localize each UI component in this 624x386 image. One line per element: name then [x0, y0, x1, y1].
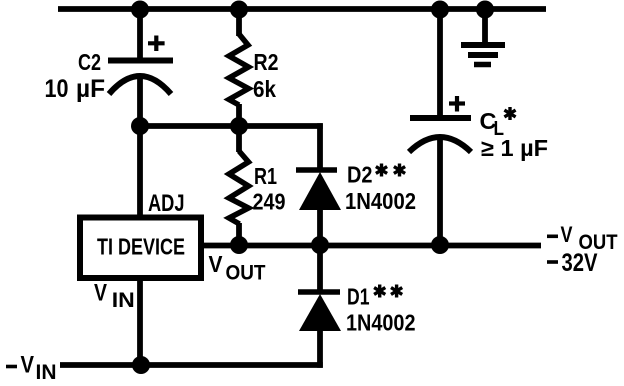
- wire ADJ node horizontal: [137, 123, 323, 129]
- label -VOUT -32V output: [547, 222, 618, 277]
- svg-text:V: V: [21, 352, 35, 379]
- wire D2 bottom lead: [317, 208, 323, 245]
- diode D2: [296, 170, 341, 210]
- svg-text:R1: R1: [254, 163, 277, 189]
- svg-text:R2: R2: [254, 49, 279, 75]
- diode D1: [298, 292, 341, 331]
- svg-text:10: 10: [45, 75, 69, 103]
- resistor R2: [229, 34, 249, 105]
- wire R2 bottom lead: [236, 104, 242, 126]
- svg-text:IN: IN: [36, 361, 57, 384]
- label VIN pin: [94, 280, 135, 313]
- wire CL top lead: [437, 9, 443, 116]
- wire ADJ pin: [137, 126, 143, 215]
- label -VIN input: [6, 352, 57, 385]
- node bottom rail / VIN junction: [132, 356, 150, 374]
- wire ground lead: [482, 9, 488, 45]
- wire R1 bottom lead: [236, 223, 242, 245]
- capacitor CL: [409, 96, 471, 152]
- svg-text:1N4002: 1N4002: [345, 188, 416, 214]
- node VOUT / D2 junction: [311, 236, 329, 254]
- svg-text:D2: D2: [347, 162, 373, 188]
- wire VIN pin: [137, 279, 143, 365]
- svg-text:µF: µF: [76, 75, 105, 103]
- op-amp box TI DEVICE: [80, 218, 201, 279]
- wire R1 top lead: [236, 126, 242, 152]
- svg-text:1N4002: 1N4002: [346, 310, 416, 336]
- ground: [461, 45, 505, 65]
- wire C2 bottom lead: [137, 77, 143, 126]
- wire D2 top lead: [317, 123, 323, 170]
- label CL*: [480, 107, 516, 140]
- svg-text:TI DEVICE: TI DEVICE: [97, 234, 185, 260]
- node top rail / C2 junction: [131, 1, 149, 19]
- resistor R1: [229, 151, 249, 224]
- node VOUT / R1 junction: [230, 236, 248, 254]
- node ADJ / R2 junction: [230, 117, 248, 135]
- wire top rail: [58, 6, 546, 12]
- label D2**: [347, 162, 405, 188]
- svg-text:6k: 6k: [253, 76, 276, 102]
- svg-text:D1: D1: [347, 284, 370, 310]
- wire R2 top lead: [236, 9, 242, 36]
- node top rail / R2 junction: [230, 1, 248, 19]
- node ADJ / C2 junction: [131, 117, 149, 135]
- svg-text:OUT: OUT: [226, 262, 266, 285]
- label VOUT pin: [209, 251, 266, 285]
- wire D1 top lead: [317, 245, 323, 290]
- svg-text:V: V: [209, 251, 224, 277]
- node VOUT / CL junction: [431, 236, 449, 254]
- node top rail / ground junction: [476, 1, 494, 19]
- node top rail / CL junction: [431, 1, 449, 19]
- svg-text:C2: C2: [78, 49, 101, 75]
- svg-text:≥ 1 µF: ≥ 1 µF: [481, 135, 548, 161]
- label D1**: [347, 284, 402, 310]
- svg-text:V: V: [561, 222, 573, 247]
- wire bottom rail: [60, 362, 323, 368]
- svg-text:32V: 32V: [562, 249, 598, 277]
- svg-text:V: V: [94, 280, 107, 307]
- wire CL bottom lead: [437, 139, 443, 245]
- svg-text:249: 249: [253, 189, 286, 215]
- svg-text:IN: IN: [112, 289, 135, 312]
- svg-text:ADJ: ADJ: [148, 190, 185, 217]
- wire C2 top lead: [137, 9, 143, 59]
- wire D1 bottom lead: [317, 329, 323, 368]
- capacitor C2: [108, 36, 173, 95]
- wire VOUT rail: [204, 243, 541, 249]
